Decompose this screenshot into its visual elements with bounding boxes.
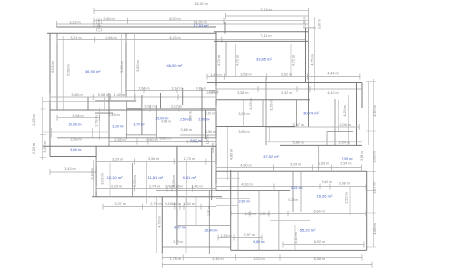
svg-text:8,07 m²: 8,07 m²	[174, 226, 186, 230]
wall left bottom stub	[50, 156, 96, 158]
svg-text:5,80 m: 5,80 m	[159, 136, 170, 140]
svg-text:6,80 m²: 6,80 m²	[253, 240, 265, 244]
svg-text:37,52 m²: 37,52 m²	[263, 154, 279, 159]
svg-text:2,70 m: 2,70 m	[184, 157, 195, 161]
dim col right wing	[366, 79, 376, 247]
wall divider bottom right block	[258, 190, 260, 250]
wall inner top right block	[214, 40, 309, 42]
svg-text:0,08 m: 0,08 m	[98, 93, 109, 97]
svg-text:5,98 m: 5,98 m	[120, 61, 124, 72]
svg-text:4,44 m: 4,44 m	[327, 72, 338, 76]
svg-text:2,04 m: 2,04 m	[339, 141, 350, 145]
wall tail west inner	[176, 146, 178, 245]
dim chain 1,48/3,58/3,52/4,44	[207, 74, 360, 80]
dim chain 1,62/6,64	[231, 211, 366, 217]
svg-text:16,26 m²: 16,26 m²	[317, 193, 333, 198]
svg-text:7,13 m: 7,13 m	[260, 8, 271, 12]
svg-text:2,78 m: 2,78 m	[95, 115, 99, 126]
svg-text:2,08 m: 2,08 m	[209, 90, 219, 94]
svg-text:2,54 m: 2,54 m	[340, 162, 351, 166]
dim ext 4,85	[227, 127, 229, 180]
svg-text:17,63 m²: 17,63 m²	[194, 24, 210, 28]
svg-text:8,20 m: 8,20 m	[169, 17, 180, 21]
svg-text:4,72 m: 4,72 m	[292, 55, 296, 66]
wall divider 11,81/9,01	[176, 148, 178, 197]
svg-text:7,06 m²: 7,06 m²	[342, 157, 354, 161]
svg-text:3,68 m: 3,68 m	[172, 175, 176, 186]
svg-text:3,29 m: 3,29 m	[290, 162, 301, 166]
wall inner left 33,85	[225, 41, 227, 76]
dim chain 2,86 / 8,20	[94, 18, 308, 24]
dim ext 4,72 a	[235, 44, 237, 76]
dim 7,13 m line	[226, 13, 309, 19]
wall y139	[57, 137, 216, 139]
svg-text:3,23 m: 3,23 m	[69, 20, 80, 24]
wall mid right wing	[280, 144, 362, 146]
svg-text:1,48 m: 1,48 m	[210, 73, 221, 77]
svg-text:1,46 m: 1,46 m	[108, 113, 119, 117]
svg-text:4,79 m: 4,79 m	[158, 216, 162, 227]
wall left block small rooms	[95, 88, 183, 146]
svg-text:0,40 m: 0,40 m	[322, 180, 332, 184]
svg-text:2,33 m: 2,33 m	[32, 143, 36, 154]
svg-text:0,34 m: 0,34 m	[171, 202, 181, 206]
wall x88 segment	[87, 97, 89, 110]
wall top right wing	[207, 82, 362, 84]
wall 16,26 west	[292, 171, 294, 212]
wall lower-left block west	[95, 146, 97, 196]
svg-text:9,96 m: 9,96 m	[318, 19, 322, 29]
svg-text:6,58 m: 6,58 m	[67, 64, 71, 75]
svg-text:2,90 m²: 2,90 m²	[239, 200, 251, 204]
svg-text:3,52 m: 3,52 m	[281, 72, 292, 76]
svg-text:4,72 m: 4,72 m	[236, 55, 240, 66]
dim row 3,58 small	[57, 115, 100, 121]
svg-text:55,22 m²: 55,22 m²	[300, 228, 316, 233]
svg-text:1,78 m: 1,78 m	[170, 257, 181, 261]
dim row 3,68/0,08/1,40/2,66/3,17	[50, 94, 216, 100]
svg-text:33,85 m²: 33,85 m²	[256, 57, 272, 62]
dim ext 6,58	[62, 36, 64, 110]
wall 30,74 east	[334, 99, 336, 145]
svg-text:0,70 m: 0,70 m	[173, 240, 183, 244]
svg-text:3,26 m: 3,26 m	[270, 99, 274, 110]
walls center-bottom extra	[238, 171, 301, 250]
svg-text:0,86 m: 0,86 m	[181, 128, 192, 132]
svg-text:1,35 m: 1,35 m	[220, 234, 231, 238]
svg-text:12,10 m²: 12,10 m²	[107, 175, 123, 180]
dim chain 4,90/3,29/1,65/2,54	[216, 165, 362, 171]
wall corridor east	[296, 100, 298, 127]
dim row 2,66/3,17 line	[126, 88, 216, 93]
wall 37,52 bottom	[216, 170, 367, 172]
svg-text:1,40 m: 1,40 m	[114, 93, 125, 97]
svg-text:3,57 m: 3,57 m	[373, 182, 377, 193]
svg-text:3,37 m: 3,37 m	[115, 202, 126, 206]
wall outer top left block	[57, 26, 217, 28]
svg-text:3,68 m: 3,68 m	[71, 93, 82, 97]
svg-text:8,15 m: 8,15 m	[169, 36, 180, 40]
svg-text:3,58 m: 3,58 m	[373, 151, 377, 162]
texts vertical rotated	[32, 17, 377, 244]
dim chain 4,93/3,08	[216, 184, 366, 190]
wall corridor right extension	[308, 83, 310, 127]
door jamb corridor	[104, 97, 106, 110]
dim row 2,01/3,12	[127, 106, 216, 112]
window jamb top	[224, 22, 226, 34]
svg-text:3,68 m: 3,68 m	[133, 175, 137, 186]
svg-text:2,86 m: 2,86 m	[103, 17, 114, 21]
wall tail divider	[208, 190, 210, 254]
svg-text:3,86 m: 3,86 m	[238, 130, 249, 134]
svg-text:15,04 m²: 15,04 m²	[155, 117, 169, 121]
svg-text:2,92 m²: 2,92 m²	[190, 139, 202, 143]
svg-text:0,82 m: 0,82 m	[196, 86, 206, 90]
svg-text:2,66 m: 2,66 m	[138, 86, 149, 90]
svg-text:3,03 m: 3,03 m	[101, 173, 105, 184]
wall x202 small rooms	[202, 88, 206, 146]
svg-text:1,34 m: 1,34 m	[303, 17, 307, 27]
wall right wing east pair	[357, 83, 363, 146]
svg-text:3,58 m: 3,58 m	[240, 72, 251, 76]
dim row 3,29/2,74/0,42/0,36/1,40	[96, 186, 216, 192]
wall mid left block	[50, 109, 216, 111]
svg-text:4,25 m: 4,25 m	[343, 105, 347, 116]
svg-text:1,65 m: 1,65 m	[318, 162, 329, 166]
svg-text:2,06 m: 2,06 m	[339, 123, 350, 127]
dim ext 4,25	[348, 95, 350, 145]
small partitions center-bottom	[216, 178, 310, 221]
svg-text:2,74 m: 2,74 m	[150, 202, 161, 206]
dim ext 2,78	[99, 108, 101, 140]
svg-text:4,93 m: 4,93 m	[241, 182, 252, 186]
svg-text:9,01 m²: 9,01 m²	[183, 175, 197, 180]
svg-text:5,87 m: 5,87 m	[293, 123, 304, 127]
svg-text:46,00 m²: 46,00 m²	[167, 63, 183, 68]
svg-text:3,91 m: 3,91 m	[238, 112, 249, 116]
svg-text:1,40 m: 1,40 m	[191, 185, 202, 189]
svg-text:6,92 m: 6,92 m	[314, 240, 325, 244]
dim ext 5,98	[121, 33, 123, 97]
svg-text:3,12 m: 3,12 m	[171, 104, 182, 108]
svg-text:1,86 m: 1,86 m	[206, 130, 216, 134]
svg-text:3,29 m²: 3,29 m²	[112, 125, 124, 129]
svg-text:4,45 m: 4,45 m	[212, 257, 223, 261]
wall corner top right stub	[303, 27, 316, 29]
svg-text:4,88 m: 4,88 m	[373, 223, 377, 234]
svg-text:6,64 m: 6,64 m	[313, 210, 324, 214]
dim ext 3,25	[243, 100, 245, 127]
dim 5,87/2,06	[266, 124, 359, 130]
svg-text:4,42 m: 4,42 m	[327, 91, 338, 95]
wall corridor top	[216, 99, 310, 101]
svg-text:2,38 m: 2,38 m	[114, 138, 125, 142]
wall left block bottom	[43, 145, 216, 147]
svg-text:5,80 m: 5,80 m	[293, 141, 304, 145]
svg-text:2,28 m: 2,28 m	[32, 114, 36, 125]
wall spine center vertical	[215, 32, 217, 191]
wall tail east	[230, 170, 232, 250]
svg-text:3,29 m: 3,29 m	[111, 185, 122, 189]
wall lower-left block bottom	[92, 196, 222, 198]
wall divider 12,10/11,81	[131, 163, 133, 197]
dim ext 4,72 b	[290, 44, 292, 76]
dim left col 2,28/2,33	[40, 97, 46, 160]
svg-text:3,36 m: 3,36 m	[148, 157, 159, 161]
wall right of top block	[306, 28, 309, 83]
svg-text:3,21 m: 3,21 m	[70, 36, 81, 40]
svg-text:3,58 m: 3,58 m	[70, 138, 81, 142]
svg-text:4,72 m: 4,72 m	[217, 55, 221, 66]
dim ext right top block	[308, 10, 314, 91]
dim row 1,35/2,97	[218, 235, 262, 241]
wall inner top left block	[47, 32, 216, 34]
svg-text:36,93 m²: 36,93 m²	[85, 69, 101, 74]
svg-text:1,07 m: 1,07 m	[206, 134, 210, 144]
dim ext 2,52	[349, 186, 351, 215]
svg-text:3,10 m: 3,10 m	[294, 232, 298, 243]
svg-text:1,52 m: 1,52 m	[260, 212, 270, 216]
svg-text:6,04 m: 6,04 m	[51, 61, 55, 72]
svg-text:18,30 m: 18,30 m	[194, 2, 207, 6]
dim row 3,37/2,74/0,43/1,44	[103, 204, 216, 210]
dim ext 3,03	[94, 160, 187, 204]
dim ext 3,10 tail	[294, 225, 296, 250]
dim 6,92	[283, 242, 364, 248]
wall tail jambs	[186, 197, 196, 253]
svg-text:2,20 m: 2,20 m	[207, 206, 211, 216]
svg-text:2,59 m²: 2,59 m²	[180, 118, 192, 122]
svg-text:30,74 m²: 30,74 m²	[303, 110, 319, 115]
wall corridor bottom	[216, 126, 295, 128]
svg-text:3,17 m: 3,17 m	[171, 86, 182, 90]
svg-text:3,58 m: 3,58 m	[72, 114, 83, 118]
svg-text:2,66 m: 2,66 m	[105, 36, 116, 40]
svg-text:5,01 m²: 5,01 m²	[291, 186, 303, 190]
dim 3,43	[50, 169, 96, 175]
svg-text:3,32 m: 3,32 m	[281, 91, 292, 95]
wall 16,26 left lower	[318, 145, 320, 171]
dim line left lower	[43, 101, 216, 108]
dim 18,30 m top line	[94, 8, 308, 14]
svg-text:4,90 m: 4,90 m	[240, 164, 251, 168]
wall tail west outer	[161, 197, 163, 254]
dim bottom chain 1,78/4,45/3,02/6,98	[162, 254, 362, 260]
dim bottom outer line	[162, 262, 372, 268]
svg-text:2,59 m²: 2,59 m²	[198, 118, 210, 122]
svg-text:6,98 m: 6,98 m	[314, 257, 325, 261]
svg-text:9,66 m²: 9,66 m²	[70, 148, 82, 152]
svg-text:1,62 m: 1,62 m	[244, 212, 255, 216]
dim chain 3,21/2,66/8,15/7,11	[57, 37, 305, 43]
texts horizontal	[64, 2, 351, 261]
svg-text:2,52 m: 2,52 m	[345, 192, 349, 203]
svg-text:0,90 m: 0,90 m	[146, 138, 157, 142]
svg-text:4,85 m: 4,85 m	[230, 149, 234, 160]
window symbol top left	[97, 19, 102, 31]
svg-text:3,25 m: 3,25 m	[249, 98, 253, 109]
dim ext 37,52 room	[266, 127, 362, 142]
svg-text:10,06 m²: 10,06 m²	[68, 123, 82, 127]
wall y135 left of spine	[180, 134, 216, 136]
wall small bath right wing	[327, 132, 353, 146]
dim row 3,29/3,36/2,70	[96, 159, 216, 165]
svg-text:2,74 m: 2,74 m	[149, 185, 160, 189]
svg-text:3,58 m: 3,58 m	[237, 91, 248, 95]
svg-text:0,29 m: 0,29 m	[288, 198, 298, 202]
svg-text:2,01 m: 2,01 m	[144, 104, 155, 108]
svg-text:4,75 m: 4,75 m	[311, 54, 315, 65]
wall y190 left segment	[156, 189, 216, 191]
dim ext 4,79	[156, 197, 158, 253]
wall corridor left top	[95, 100, 136, 102]
svg-text:2,97 m: 2,97 m	[244, 233, 255, 237]
wall corridor mid divider	[262, 100, 264, 127]
wall right wing east lower	[366, 171, 368, 250]
wall small rooms inner	[126, 101, 157, 139]
dim chain 3,23 / 18,20	[57, 21, 309, 27]
svg-text:3,10 m: 3,10 m	[91, 168, 95, 179]
wall y190 segment	[216, 189, 290, 191]
svg-text:3,08 m: 3,08 m	[339, 182, 350, 186]
svg-text:3,20 m: 3,20 m	[43, 141, 47, 152]
wall left inner	[56, 33, 58, 110]
wall tail bottom	[162, 246, 231, 248]
dim row 2,38/5,80/2,77	[109, 139, 216, 145]
wall 30,74 west	[265, 78, 267, 146]
svg-text:3,70 m²: 3,70 m²	[133, 123, 145, 127]
wall small room right wing	[338, 100, 340, 132]
wall divider 36,93/46,00	[125, 33, 127, 97]
dim line y132 left	[43, 128, 109, 138]
svg-text:3,43 m: 3,43 m	[64, 167, 75, 171]
svg-text:3,29 m: 3,29 m	[112, 158, 123, 162]
svg-text:4,45 m: 4,45 m	[211, 143, 215, 153]
wall east lower-left	[211, 148, 213, 200]
svg-text:26,94 m²: 26,94 m²	[204, 228, 218, 232]
svg-text:3,58 m: 3,58 m	[360, 151, 364, 161]
svg-text:3,02 m: 3,02 m	[253, 257, 264, 261]
svg-text:1,44 m: 1,44 m	[184, 202, 195, 206]
svg-text:5,83 m: 5,83 m	[136, 60, 140, 71]
svg-text:11,81 m²: 11,81 m²	[148, 175, 164, 180]
dim chain 3,58/3,32/4,42	[216, 86, 362, 92]
svg-text:1,91 m: 1,91 m	[205, 112, 215, 116]
svg-text:1,00 m: 1,00 m	[97, 19, 101, 29]
svg-text:4,30 m: 4,30 m	[373, 105, 377, 116]
wall tail inner shelf	[177, 225, 231, 227]
wall outer top right block	[214, 31, 309, 33]
wall bottom right block	[231, 249, 367, 251]
wall left outer	[49, 33, 51, 156]
svg-text:7,11 m: 7,11 m	[261, 34, 272, 38]
dim ext 5,83	[134, 33, 136, 100]
room labels blue	[68, 57, 353, 245]
